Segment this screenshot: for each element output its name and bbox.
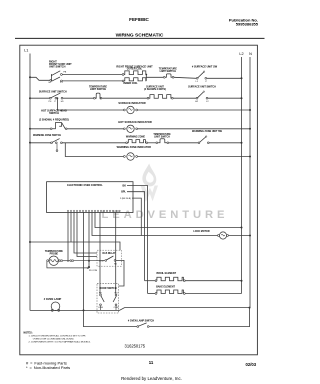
wire to L2 row A: [207, 77, 242, 79]
svg-text:LIMIT SWITCH: LIMIT SWITCH: [154, 136, 170, 138]
switch hot surface head switch: [50, 123, 67, 130]
wire to N row F: [138, 156, 251, 158]
wire to L2 row E: [209, 142, 241, 144]
EOC connector pins: [67, 210, 120, 212]
svg-text:NO: NO: [99, 292, 102, 294]
svg-text:LEADVENTURE: LEADVENTURE: [102, 209, 229, 221]
label outer coil: [116, 66, 153, 71]
svg-text:L2: L2: [239, 52, 243, 56]
wire L1 to surface unit switch: [30, 97, 50, 99]
svg-text:H1: H1: [49, 82, 53, 84]
svg-text:P6 CON: P6 CON: [89, 270, 98, 272]
resistor right front surface unit outer coil: [124, 71, 146, 75]
node junction relay input: [88, 260, 90, 262]
wire pin to lock motor line: [92, 212, 218, 235]
node terminal outer coil left: [122, 74, 124, 76]
wire switch to limit switch row B: [63, 97, 94, 99]
switch temperature limit row E: [156, 139, 169, 144]
motor lock motor: [218, 232, 229, 239]
svg-text:SURFACE INDICATOR: SURFACE INDICATOR: [118, 101, 145, 105]
svg-text:P: P: [205, 81, 207, 83]
node junction L2 row A: [241, 77, 243, 79]
resistor warming zone element: [126, 140, 148, 144]
node junction L2 row B: [241, 97, 243, 99]
wire to surface unit element: [102, 97, 147, 99]
switch warming zone unit switch: [198, 136, 209, 144]
node junction L1 row B: [29, 97, 31, 99]
svg-text:* = Non-Illustrated Parts: * = Non-Illustrated Parts: [26, 365, 70, 370]
wire broil element: [145, 280, 156, 282]
svg-text:NO: NO: [115, 292, 118, 294]
notes block: [24, 331, 92, 343]
wire pin to L2 line: [95, 212, 242, 227]
watermark flame logo: [141, 164, 158, 202]
wire L1 to switch: [30, 77, 50, 80]
switch surface unit switch left: [49, 93, 65, 103]
svg-text:LOCK MOTOR: LOCK MOTOR: [193, 230, 210, 233]
switch surface unit switch right: [195, 91, 209, 103]
wire drop from row B switch: [57, 98, 123, 110]
node junction N row C: [249, 109, 251, 111]
switch warming zone switch: [51, 139, 63, 152]
wire switch to indicator row D: [67, 128, 123, 130]
wire pin to relay coil a: [74, 212, 97, 253]
resistor surface unit element: [147, 95, 173, 100]
node junction L2 control line: [241, 227, 243, 229]
svg-text:PROBE: PROBE: [50, 253, 59, 256]
label temperature limit switch row E: [153, 133, 171, 138]
node junction N row D: [249, 128, 251, 130]
resistor right front surface unit inner coil: [124, 78, 146, 81]
svg-text:02/03: 02/03: [246, 362, 257, 367]
wire door switch to N: [95, 308, 250, 311]
wire L1 rail: [29, 54, 31, 311]
wire to L2 row B: [208, 97, 242, 99]
wire pin to relay coil b: [77, 212, 97, 256]
svg-text:BPL: BPL: [121, 191, 126, 194]
wire to N row C: [138, 109, 251, 111]
svg-text:# OVEN LAMP: # OVEN LAMP: [44, 297, 62, 301]
svg-text:DLB RELAY: DLB RELAY: [103, 252, 116, 255]
svg-text:NO: NO: [114, 264, 118, 266]
switch right front surface unit switch: [49, 71, 67, 84]
label right front surf unit switch: [49, 60, 72, 68]
svg-text:P1: P1: [60, 82, 63, 84]
node junction N lock motor: [249, 235, 251, 237]
wire pin to relay input: [88, 212, 90, 268]
svg-text:BAKE ELEMENT: BAKE ELEMENT: [156, 285, 175, 288]
label temperature probe: [45, 250, 63, 256]
svg-text:SURFACE UNIT SWITCH: SURFACE UNIT SWITCH: [188, 86, 216, 89]
relay DLB relay (dashed): [97, 250, 122, 266]
wire lamp switch to N drop: [149, 308, 249, 327]
svg-text:PB: PB: [63, 72, 66, 74]
svg-text:11: 11: [149, 360, 154, 365]
wire L1 oven bus: [29, 241, 31, 243]
svg-text:2. COMPONENTS WITH # DO NOT: 2. COMPONENTS WITH # DO NOT APPEAR IN AL…: [29, 340, 92, 343]
wire coil join: [146, 75, 163, 81]
switch door switch box: [97, 284, 119, 313]
svg-text:WARMING ZONE: WARMING ZONE: [126, 136, 146, 139]
svg-text:WARMING ZONE INDICATOR: WARMING ZONE INDICATOR: [117, 146, 152, 149]
node junction L1 row E: [29, 142, 31, 144]
lamp warming zone indicator: [124, 153, 138, 160]
svg-text:COM: COM: [114, 307, 119, 309]
svg-text:UNIT SWITCH: UNIT SWITCH: [49, 65, 66, 68]
node junction L2 row E: [241, 142, 243, 144]
svg-text:N: N: [249, 52, 252, 56]
wire lock motor to N: [229, 235, 251, 237]
wire pin to door switch left: [99, 212, 101, 294]
svg-text:P: P: [54, 101, 56, 103]
wire element to limit switch row E: [148, 142, 156, 144]
wire EOC exit 3 to relay output: [132, 198, 141, 235]
wire element to switch row B: [173, 97, 196, 99]
door switch contacts: [98, 292, 119, 310]
label surface unit element: [144, 86, 166, 91]
svg-text:5995386355: 5995386355: [236, 21, 259, 26]
label temperature limit switch row B: [89, 85, 107, 90]
svg-text:OVEN DOOR CLOSED AND UNLOCKED.: OVEN DOOR CLOSED AND UNLOCKED.: [33, 337, 75, 340]
resistor broil element: [155, 277, 185, 281]
svg-text:DOOR SWITCH: DOOR SWITCH: [99, 287, 117, 290]
svg-text:WIRING SCHEMATIC: WIRING SCHEMATIC: [116, 33, 164, 39]
svg-text:HOT SURFACE INDICATOR: HOT SURFACE INDICATOR: [118, 120, 152, 124]
svg-text:L1: L1: [196, 81, 199, 83]
schematic border box: [20, 45, 258, 355]
svg-text:Rendered by LeadVenture, Inc.: Rendered by LeadVenture, Inc.: [121, 376, 182, 381]
switch rf surface unit sw: [196, 71, 208, 83]
wire EOC exit 2 to broil vertical: [127, 192, 145, 281]
wire EOC exit 1 to bake vertical: [127, 186, 148, 294]
svg-text:2 (BK DLB): 2 (BK DLB): [120, 198, 131, 200]
svg-text:1. CIRCUIT SHOWN WITH ALL CON: 1. CIRCUIT SHOWN WITH ALL CONTROLS SET T…: [29, 335, 87, 338]
lamp surface indicator: [124, 106, 138, 113]
wire pin to L1 bus line: [70, 212, 72, 242]
svg-text:FEF888C: FEF888C: [129, 17, 149, 22]
node junction L1 row A: [29, 76, 31, 78]
svg-text:L1: L1: [24, 49, 28, 53]
label temperature limit switch row A: [159, 68, 177, 73]
svg-text:OUTER COIL: OUTER COIL: [127, 68, 143, 71]
svg-text:INNER COIL: INNER COIL: [123, 82, 138, 85]
svg-text:316250175: 316250175: [125, 343, 146, 348]
wire oven lamp line: [30, 309, 95, 311]
svg-text:SWITCH: SWITCH: [49, 112, 59, 115]
svg-text:# OVEN LAMP SWITCH: # OVEN LAMP SWITCH: [128, 319, 155, 322]
svg-text:L2: L2: [206, 101, 209, 103]
switch temperature limit row B: [94, 93, 102, 99]
node junction L1 row D: [29, 128, 31, 130]
svg-text:BROIL ELEMENT: BROIL ELEMENT: [157, 272, 177, 275]
switch temperature limit row A: [163, 74, 174, 78]
node junction oven lamp: [83, 309, 85, 311]
node junction N row F: [249, 156, 251, 158]
wire pin to oven lamp junction: [83, 212, 85, 310]
wire lamp switch run: [84, 310, 137, 326]
header rule: [15, 37, 265, 39]
wire bake element: [148, 293, 156, 295]
svg-text:NOTES:: NOTES:: [24, 331, 33, 334]
svg-text:# SURFACE UNIT SW: # SURFACE UNIT SW: [192, 65, 218, 68]
switch oven lamp switch: [137, 323, 149, 328]
wire L2 rail: [241, 57, 243, 294]
wire pin to probe: [67, 212, 69, 262]
lamp hot surface indicator: [124, 125, 138, 132]
svg-text:BK: BK: [123, 185, 127, 188]
resistor bake element: [155, 290, 185, 294]
svg-text:SURFACE UNIT SWITCH: SURFACE UNIT SWITCH: [39, 91, 67, 94]
wire drop from warming zone switch: [65, 143, 123, 157]
wire to N row D: [138, 128, 251, 130]
svg-text:(2 SHOWN, 4 REQUIRED): (2 SHOWN, 4 REQUIRED): [39, 118, 69, 121]
node junction N door switch: [249, 307, 251, 309]
svg-text:H2: H2: [195, 101, 199, 103]
label hot surface head switch: [39, 110, 69, 122]
svg-text:ELECTRONIC OVEN CONTROL: ELECTRONIC OVEN CONTROL: [67, 184, 103, 187]
wire L1 to warming zone switch: [30, 142, 51, 144]
svg-text:LIMIT SWITCH: LIMIT SWITCH: [90, 88, 107, 91]
svg-text:(2 SHOWN 2 NOTE): (2 SHOWN 2 NOTE): [144, 88, 166, 91]
wire switch to inner coil: [62, 80, 122, 82]
wire N rail: [249, 57, 251, 308]
wire switch to outer coil: [62, 74, 122, 76]
svg-text:LIMIT SWITCH: LIMIT SWITCH: [160, 70, 177, 73]
svg-text:WARMING ZONE SWITCH: WARMING ZONE SWITCH: [33, 134, 61, 137]
svg-text:H1: H1: [61, 101, 65, 103]
node junction L2 broil: [241, 280, 243, 282]
wire switch to warming zone element: [62, 142, 125, 144]
wire relay output: [116, 260, 124, 286]
lamp oven lamp: [51, 302, 60, 311]
node connector P6: [88, 266, 90, 268]
svg-text:P4: P4: [49, 101, 52, 103]
switch relay contact: [99, 256, 118, 266]
node junction row B drop: [57, 97, 59, 99]
thermistor temperature probe: [47, 256, 105, 269]
wire L1 to hot surface switch: [30, 128, 50, 130]
wire pin to door switch right: [115, 212, 117, 294]
wire limit switch to zone switch right: [169, 142, 198, 144]
svg-text:COM: COM: [98, 307, 103, 309]
svg-text:WARMING ZONE UNIT SW: WARMING ZONE UNIT SW: [192, 130, 223, 133]
op-amp electronic oven control box: [47, 182, 133, 213]
wire limit switch to unit switch: [174, 77, 196, 78]
node terminal inner coil left: [122, 80, 124, 82]
